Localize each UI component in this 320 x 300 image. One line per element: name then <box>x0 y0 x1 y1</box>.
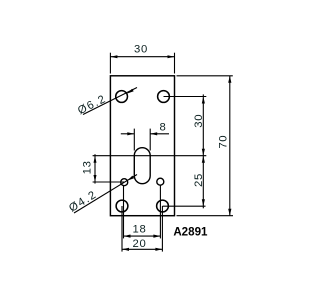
dim 13 arrow down <box>94 175 97 182</box>
dim 30 top arrow right <box>168 55 175 58</box>
dim 30/25 right dimension line <box>202 94 204 208</box>
hole H4 bottom-right <box>157 200 169 212</box>
svg-text:8: 8 <box>160 121 167 133</box>
dim 20 extension line left <box>121 206 123 252</box>
svg-text:20: 20 <box>133 238 147 250</box>
dim 30 right arrow down <box>202 149 205 156</box>
dim 20 arrow right <box>155 248 162 251</box>
dim 13 arrow up <box>94 156 97 163</box>
plate outline <box>110 76 174 216</box>
dim 30 top extension line left <box>109 53 111 74</box>
dim 8 extension line right <box>149 129 151 151</box>
dim 30 top extension line right <box>174 53 176 74</box>
hole H2 top-right <box>158 91 170 103</box>
dim 18 extension line left <box>123 186 125 239</box>
dim 8 extension line left <box>133 129 135 151</box>
dim 25 right arrow down <box>202 199 205 206</box>
dim 8 dimension line right <box>150 133 169 135</box>
dim 25 right arrow up <box>202 156 205 163</box>
dim 20 extension line right <box>161 206 163 252</box>
leader arrow Ø4.2 <box>127 176 134 181</box>
dim 70 dimension line <box>229 76 231 216</box>
dim 20 arrow left <box>122 248 129 251</box>
hole H3 bottom-left <box>116 200 128 212</box>
svg-text:30: 30 <box>193 114 205 128</box>
hole S1 small left Ø4.2 <box>121 179 128 186</box>
dim 20 dimension line <box>122 248 162 250</box>
dim 70 extension line bottom <box>177 215 234 217</box>
dim 13 dimension line <box>94 154 96 183</box>
slot obround <box>134 148 150 184</box>
dim 30 top dimension line <box>110 56 174 58</box>
hole H1 top-left Ø6.2 <box>116 91 128 103</box>
hole S2 small right Ø4.2 <box>157 178 164 185</box>
dim 8 arrow left <box>127 132 134 135</box>
leader arrow Ø6.2 <box>127 89 134 94</box>
svg-text:13: 13 <box>81 160 93 174</box>
ext line from hole S1 center <box>93 181 125 183</box>
dim 70 extension line top <box>177 75 233 77</box>
dim 8 arrow right <box>150 132 157 135</box>
dim 18 extension line right <box>159 185 161 238</box>
svg-text:A2891: A2891 <box>173 225 208 238</box>
ext line from hole H4 center <box>163 205 206 207</box>
dim 18 dimension line <box>124 235 161 237</box>
ext line from hole H2 center <box>164 96 207 98</box>
svg-text:18: 18 <box>133 224 147 236</box>
dim 18 arrow left <box>124 235 131 238</box>
dim 18 arrow right <box>153 235 160 238</box>
dim 30 right arrow up <box>202 97 205 104</box>
dim 70 arrow up <box>228 76 231 83</box>
dim 30 top arrow left <box>110 55 117 58</box>
dim 70 arrow down <box>228 209 231 216</box>
dim 8 dimension line left <box>121 133 135 135</box>
svg-text:30: 30 <box>134 44 148 56</box>
leader line Ø6.2 <box>83 88 137 115</box>
svg-text:25: 25 <box>193 173 205 187</box>
svg-text:70: 70 <box>217 135 229 149</box>
ext line through slot top arc center <box>93 155 207 157</box>
leader line Ø4.2 <box>74 175 137 214</box>
